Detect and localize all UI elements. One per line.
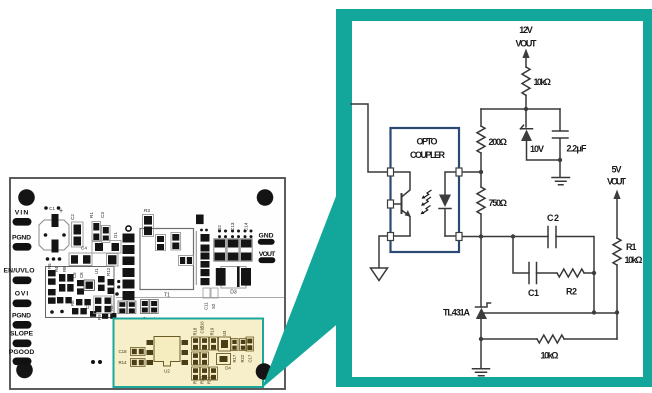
svg-text:R18: R18 bbox=[193, 327, 198, 335]
svg-text:C17: C17 bbox=[248, 354, 253, 362]
svg-text:VOUT: VOUT bbox=[259, 251, 276, 258]
svg-text:R6: R6 bbox=[70, 300, 75, 306]
svg-text:C5: C5 bbox=[72, 272, 77, 278]
svg-text:C11: C11 bbox=[204, 302, 209, 310]
svg-text:C2: C2 bbox=[70, 214, 75, 220]
svg-text:OVI: OVI bbox=[15, 291, 29, 298]
svg-text:C3: C3 bbox=[100, 212, 105, 218]
svg-text:C14: C14 bbox=[243, 222, 248, 231]
svg-text:VIN: VIN bbox=[15, 210, 29, 217]
svg-text:R22: R22 bbox=[240, 354, 245, 362]
svg-text:D3: D3 bbox=[230, 290, 237, 296]
svg-text:R15: R15 bbox=[193, 376, 198, 384]
svg-text:C18: C18 bbox=[119, 349, 128, 354]
svg-text:R14: R14 bbox=[119, 360, 128, 365]
svg-text:C7: C7 bbox=[85, 303, 90, 309]
svg-text:D2: D2 bbox=[217, 225, 222, 231]
svg-text:EN/UVLO: EN/UVLO bbox=[4, 268, 35, 275]
svg-text:R5: R5 bbox=[47, 263, 52, 269]
svg-text:10V: 10V bbox=[530, 144, 544, 154]
svg-text:D1: D1 bbox=[113, 232, 118, 238]
svg-text:PGND: PGND bbox=[12, 313, 31, 320]
svg-text:R8: R8 bbox=[62, 266, 67, 272]
svg-text:U3: U3 bbox=[222, 330, 227, 336]
svg-text:U2: U2 bbox=[164, 369, 170, 374]
svg-text:R4: R4 bbox=[54, 266, 59, 272]
svg-text:C2: C2 bbox=[547, 213, 559, 223]
svg-text:750Ω: 750Ω bbox=[489, 198, 508, 208]
svg-text:200Ω: 200Ω bbox=[489, 137, 508, 147]
svg-text:R2: R2 bbox=[566, 287, 577, 297]
svg-text:D4: D4 bbox=[225, 366, 231, 371]
svg-text:R12: R12 bbox=[106, 267, 111, 276]
svg-text:VOUT: VOUT bbox=[607, 177, 627, 187]
svg-text:COUPLER: COUPLER bbox=[410, 150, 446, 160]
svg-text:12V: 12V bbox=[519, 25, 533, 35]
svg-text:R17: R17 bbox=[232, 354, 237, 362]
svg-text:C8: C8 bbox=[79, 272, 84, 278]
svg-text:R1: R1 bbox=[89, 212, 94, 218]
svg-text:TL431A: TL431A bbox=[443, 308, 471, 318]
svg-text:R19: R19 bbox=[210, 327, 215, 335]
svg-text:OPTO: OPTO bbox=[417, 137, 438, 147]
svg-text:S2: S2 bbox=[211, 303, 216, 309]
svg-text:C1: C1 bbox=[49, 206, 55, 211]
svg-text:R20: R20 bbox=[200, 376, 205, 384]
svg-text:C13: C13 bbox=[230, 222, 235, 231]
svg-text:R9: R9 bbox=[97, 314, 102, 320]
svg-text:10kΩ: 10kΩ bbox=[534, 77, 552, 87]
svg-text:R3: R3 bbox=[144, 208, 150, 213]
svg-text:C4: C4 bbox=[81, 246, 87, 251]
svg-text:10kΩ: 10kΩ bbox=[625, 255, 643, 265]
svg-text:U1: U1 bbox=[94, 268, 99, 274]
svg-text:10kΩ: 10kΩ bbox=[541, 351, 559, 361]
svg-text:5V: 5V bbox=[612, 165, 622, 175]
svg-text:SLOPE: SLOPE bbox=[10, 331, 33, 338]
svg-text:R1: R1 bbox=[626, 242, 637, 252]
svg-text:2.2μF: 2.2μF bbox=[567, 144, 588, 154]
svg-text:R8: R8 bbox=[109, 305, 114, 311]
svg-text:PGOOD: PGOOD bbox=[9, 349, 35, 356]
svg-text:T1: T1 bbox=[164, 293, 170, 299]
svg-text:VOUT: VOUT bbox=[516, 39, 538, 49]
svg-text:C1: C1 bbox=[528, 288, 539, 298]
svg-text:R21: R21 bbox=[207, 376, 212, 384]
svg-text:PGND: PGND bbox=[12, 235, 31, 242]
svg-text:C16: C16 bbox=[200, 321, 205, 329]
svg-text:GND: GND bbox=[259, 233, 274, 240]
